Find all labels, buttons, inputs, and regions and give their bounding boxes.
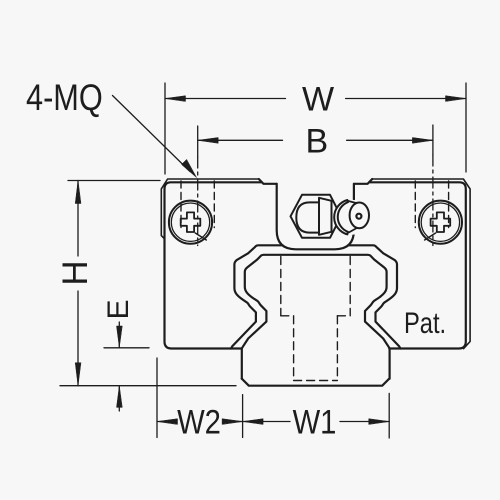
dimension H [68, 181, 160, 386]
dimension W1 [243, 393, 390, 438]
rail mounting hole hidden lines: counterbore [281, 257, 350, 316]
right screw [419, 201, 462, 244]
svg-text:W: W [302, 81, 334, 119]
rail cross-section profile [242, 255, 390, 379]
grease nipple body cylinder arc [334, 200, 347, 234]
grease nipple dome [296, 202, 319, 232]
grease nipple tip face [350, 203, 369, 229]
block outer chamfer contour [161, 179, 470, 349]
left screw hidden hole lines [181, 181, 214, 228]
grease hole [356, 214, 361, 219]
grease nipple hex [291, 195, 342, 238]
left hole centerline [197, 157, 199, 246]
rail bottom reference line [60, 385, 236, 387]
block main outline [165, 179, 466, 349]
4-MQ leader line [113, 96, 197, 178]
grease nipple thread collar [319, 198, 332, 235]
svg-text:W2: W2 [177, 402, 221, 441]
svg-text:4-MQ: 4-MQ [26, 77, 103, 118]
rail bottom edge with chamfers [242, 379, 389, 386]
dimension E [104, 322, 149, 411]
seal opening contour (outer profile around rail) [231, 245, 400, 348]
grease nipple body mask [335, 200, 370, 235]
grease nipple cone arc [338, 202, 348, 232]
right screw hidden hole lines [415, 181, 448, 228]
left screw [169, 201, 212, 244]
dimension B [198, 125, 433, 157]
grease nipple cone silhouette top [346, 200, 358, 203]
svg-text:B: B [305, 122, 328, 160]
right hole centerline [432, 155, 434, 246]
svg-text:H: H [56, 260, 95, 285]
top edge step down to middle section [259, 179, 277, 184]
grease nipple pocket recess [277, 184, 354, 250]
grease nipple cone silhouette bottom [346, 228, 358, 234]
svg-text:Pat.: Pat. [404, 306, 446, 339]
dimension W [165, 83, 466, 174]
dimension W2 [157, 358, 243, 438]
svg-text:W1: W1 [293, 402, 337, 441]
svg-text:E: E [102, 299, 135, 319]
rail mounting hole hidden lines: through hole [294, 316, 338, 381]
